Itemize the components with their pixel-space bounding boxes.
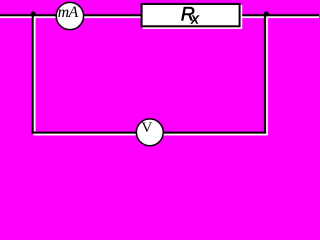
wire shadow: bottom horizontal highlight <box>33 133 268 136</box>
resistor Rx (box) <box>142 4 240 26</box>
wire: bottom horizontal <box>31 131 266 134</box>
resistor Rx (box white shadow) <box>143 5 243 29</box>
wire: right vertical <box>264 14 267 133</box>
wire shadow: right vertical highlight <box>265 16 268 135</box>
wire: left vertical <box>31 14 34 133</box>
svg-text:x: x <box>190 11 199 28</box>
svg-text:mA: mA <box>58 4 79 21</box>
ammeter U1 (mA meter circle) <box>56 2 83 29</box>
svg-text:V: V <box>141 119 152 136</box>
node: right junction dot <box>264 11 269 16</box>
wire: top horizontal <box>0 14 319 17</box>
wire shadow: top horizontal highlight <box>0 16 319 19</box>
wire shadow: left vertical highlight <box>33 16 36 135</box>
node: left junction dot <box>31 11 36 16</box>
voltmeter U2 (V meter circle) <box>136 119 163 146</box>
